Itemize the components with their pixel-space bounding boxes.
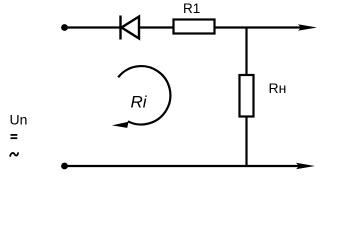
resistor R1 (horizontal box)	[174, 20, 215, 34]
node A (top-left input terminal dot)	[61, 24, 68, 31]
svg-text:Ri: Ri	[131, 92, 148, 111]
loop current arc Ri (circular arrow, clockwise)	[118, 66, 170, 124]
wire: top, node A to diode	[65, 26, 120, 28]
resistor Rн (vertical box, load)	[240, 75, 254, 117]
diode VD (cathode bar left, triangle pointing left)	[121, 16, 140, 40]
arrow: top-right output terminal	[298, 24, 317, 31]
node B (bottom-left terminal dot)	[61, 163, 68, 170]
arrowhead of loop current arc (points left)	[112, 122, 129, 128]
arrow: bottom-right output terminal	[296, 163, 315, 170]
symbol = (DC)	[11, 134, 18, 139]
svg-text:R1: R1	[183, 1, 200, 16]
symbol ~ (AC)	[10, 153, 18, 156]
wire: bottom, node B to output arrow	[65, 165, 299, 167]
wire: top, diode to R1	[139, 26, 174, 28]
wire: vertical branch, Rн down to bottom wire	[245, 117, 247, 167]
svg-text:Rн: Rн	[269, 80, 287, 96]
wire: vertical branch, top wire down to Rн	[245, 27, 247, 77]
svg-text:Un: Un	[10, 112, 28, 128]
wire: top, R1 to output arrow	[215, 26, 301, 28]
